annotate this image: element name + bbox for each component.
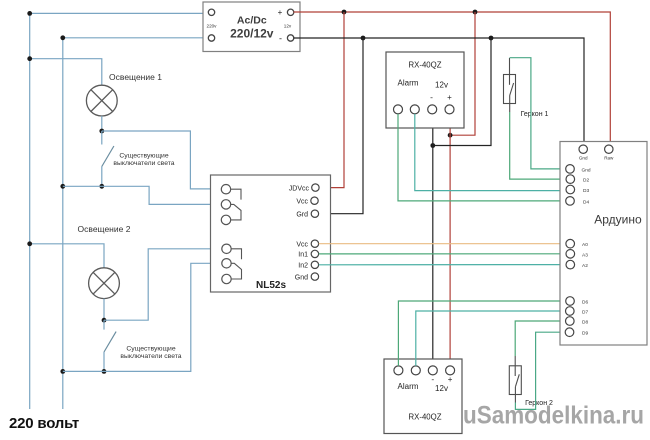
svg-text:Vcc: Vcc (296, 242, 308, 249)
svg-text:uSamodelkina.ru: uSamodelkina.ru (463, 402, 644, 430)
svg-text:Gnd: Gnd (579, 156, 588, 161)
svg-text:A0: A0 (582, 242, 588, 248)
pin 220v top (208, 9, 214, 15)
svg-text:12v: 12v (435, 81, 448, 90)
svg-text:Освещение 1: Освещение 1 (109, 72, 162, 82)
wire Vcc to A0 orange (319, 243, 566, 245)
node L-lamp2 (27, 241, 32, 246)
wire Геркон1 top to Arduino Gnd teal (510, 58, 566, 169)
wire Геркон2 bottom to D9 teal (515, 332, 565, 409)
svg-text:выключатели света: выключатели света (120, 353, 181, 360)
pin In1 (311, 250, 318, 257)
svg-text:220 вольт: 220 вольт (9, 415, 79, 432)
pin RX2 minus (428, 366, 437, 375)
wire RX1 alarm2 to D3 teal (415, 114, 566, 191)
node switch1 bottom (99, 184, 104, 189)
svg-text:220/12v: 220/12v (230, 26, 274, 40)
svg-text:JDVcc: JDVcc (289, 185, 310, 192)
wire black branch down to RX minus (433, 38, 491, 146)
svg-text:Освещение 2: Освещение 2 (78, 224, 131, 234)
relay K2 bracket (231, 249, 241, 259)
pin D2 (566, 175, 575, 184)
pin Vcc upper (311, 197, 318, 204)
svg-text:D6: D6 (582, 300, 588, 306)
motion sensor RX-40QZ bottom box (384, 359, 462, 434)
relay module NL52s box (211, 175, 331, 292)
svg-text:+: + (448, 375, 453, 384)
wire lamp1 bottom (101, 116, 103, 131)
svg-text:Raw: Raw (604, 156, 614, 161)
wire L branch to lamp 1 (30, 59, 102, 85)
pin A0 (566, 239, 575, 248)
node RX minus tee (430, 143, 435, 148)
pin + 12v (287, 9, 293, 15)
svg-text:Существующие: Существующие (126, 346, 175, 353)
svg-text:+: + (447, 93, 452, 102)
relay K1 contact COM (221, 200, 230, 209)
svg-text:220v: 220v (207, 24, 218, 29)
pin D9 (565, 328, 574, 337)
node L-lamp1 (27, 56, 32, 61)
node red rail to JDVcc (342, 10, 347, 15)
pin D3 (566, 185, 575, 194)
node L top corner (27, 11, 32, 16)
svg-text:D2: D2 (583, 178, 589, 184)
pin Arduino Raw (605, 145, 613, 153)
pin Arduino Gnd top (579, 145, 587, 153)
wire RX2 alarm1 to D6 green (398, 301, 565, 366)
svg-text:D9: D9 (582, 331, 588, 337)
wire mains L vertical (29, 13, 31, 409)
reed switch Геркон 1 (504, 58, 516, 112)
controller Ардуино box (560, 142, 647, 346)
pin - 12v (287, 35, 293, 41)
svg-text:выключатели света: выключатели света (113, 160, 174, 167)
svg-text:Alarm: Alarm (398, 382, 419, 391)
wire N through switch2 to relay K2 common (63, 263, 222, 371)
relay K2 contact NO (222, 244, 231, 253)
pin RX2 alarm2 (411, 366, 420, 375)
node black rail to Grd (361, 36, 366, 41)
wire Геркон1 bottom to D2 green (510, 112, 566, 179)
svg-text:NL52s: NL52s (256, 280, 286, 291)
relay K2 blade (231, 263, 241, 279)
switch SA2 (104, 320, 116, 371)
svg-text:D8: D8 (582, 320, 588, 326)
pin RX2 plus (446, 366, 455, 375)
node N-switch2 (60, 369, 65, 374)
svg-text:D7: D7 (582, 310, 588, 316)
svg-text:Геркон 1: Геркон 1 (521, 111, 549, 118)
svg-text:RX-40QZ: RX-40QZ (409, 413, 442, 422)
wire RX2 alarm2 to D7 teal (416, 311, 566, 366)
relay K2 contact NC (222, 274, 231, 283)
node N-switch1 (60, 184, 65, 189)
lamp HL1 Освещение 1 (86, 85, 117, 116)
svg-text:D3: D3 (583, 188, 589, 194)
wire red JDVcc branch (319, 12, 344, 188)
wire GND rail black (294, 38, 585, 145)
svg-text:+: + (278, 8, 283, 17)
pin RX1 minus (428, 105, 437, 114)
node switch2 bottom (102, 369, 107, 374)
svg-text:A2: A2 (582, 263, 588, 269)
node red rail to RX plus (473, 10, 478, 15)
svg-text:12v: 12v (284, 24, 292, 29)
svg-text:Gnd: Gnd (582, 167, 591, 173)
pin D4 (566, 197, 575, 206)
svg-text:Ардуино: Ардуино (594, 213, 642, 227)
pin A3 (566, 250, 575, 259)
pin D6 (566, 297, 575, 306)
relay K2 contact COM (222, 259, 231, 268)
wire In2 to A2 teal (319, 264, 566, 266)
svg-text:In1: In1 (298, 252, 308, 259)
node black rail to RX minus (489, 36, 494, 41)
pin RX1 plus (445, 105, 454, 114)
svg-text:-: - (431, 374, 434, 384)
node RX plus tee (448, 133, 453, 138)
wire RX1 alarm1 to D4 green (398, 114, 566, 201)
pin D8 (566, 317, 575, 326)
pin Gnd NL52s (311, 273, 318, 280)
svg-text:RX-40QZ: RX-40QZ (409, 61, 442, 70)
svg-text:Ac/Dc: Ac/Dc (237, 15, 267, 27)
pin Arduino Gnd left (566, 165, 575, 174)
pin A2 (566, 260, 575, 269)
pin D7 (566, 307, 575, 316)
wire black Grd branch (319, 38, 363, 214)
pin RX2 alarm1 (394, 366, 403, 375)
wire Геркон2 top to D8 green (515, 321, 566, 356)
pin RX1 alarm2 (410, 105, 419, 114)
svg-text:D4: D4 (583, 199, 589, 205)
relay K1 blade (231, 204, 241, 220)
svg-text:Alarm: Alarm (398, 79, 419, 88)
pin 220v bottom (208, 35, 214, 41)
svg-text:12v: 12v (435, 384, 448, 393)
wire N to AC/DC 220v bottom (63, 37, 209, 39)
wire lamp2 bottom (103, 299, 105, 321)
reed switch Геркон 2 (509, 356, 521, 403)
wire red RX1 plus to RX2 plus vertical (449, 114, 451, 366)
relay K1 contact NC (221, 215, 230, 224)
wire black RX1 minus to RX2 minus vertical (432, 114, 434, 366)
svg-text:A3: A3 (582, 252, 588, 258)
svg-text:-: - (279, 34, 282, 44)
wire L branch to lamp 2 (30, 244, 104, 268)
wire L to AC/DC 220v top (30, 12, 209, 14)
pin Vcc lower (311, 240, 318, 247)
wire lamp1 junction to relay K1 contact top (102, 131, 222, 189)
wire mains N vertical (62, 38, 64, 409)
wire +12V rail red (294, 12, 611, 145)
wire red branch down to RX plus (450, 12, 475, 135)
svg-text:Gnd: Gnd (295, 274, 308, 281)
svg-text:Vcc: Vcc (296, 199, 308, 206)
motion sensor RX-40QZ top box (386, 52, 464, 128)
wire lamp2 junction to relay K2 contact top (104, 249, 222, 320)
lamp HL2 Освещение 2 (89, 268, 120, 299)
relay K1 bracket (231, 189, 241, 199)
svg-text:Grd: Grd (296, 212, 308, 219)
pin JDVcc (312, 184, 319, 191)
pin RX1 alarm1 (394, 105, 403, 114)
switch SA1 (102, 131, 114, 186)
node lamp2-switch2 junction (102, 318, 107, 323)
pin In2 (311, 261, 318, 268)
relay K1 contact NO (221, 185, 230, 194)
svg-text:Существующие: Существующие (119, 153, 168, 160)
svg-text:In2: In2 (298, 262, 308, 269)
node N top corner (60, 35, 65, 40)
svg-text:-: - (430, 92, 433, 102)
wire N through switch1 to relay K1 common (63, 186, 222, 204)
wire In1 to A3 green (319, 253, 566, 255)
node lamp1-switch1 junction (99, 129, 104, 134)
power supply U1 AC/DC box (203, 2, 300, 52)
pin Grd (311, 210, 318, 217)
